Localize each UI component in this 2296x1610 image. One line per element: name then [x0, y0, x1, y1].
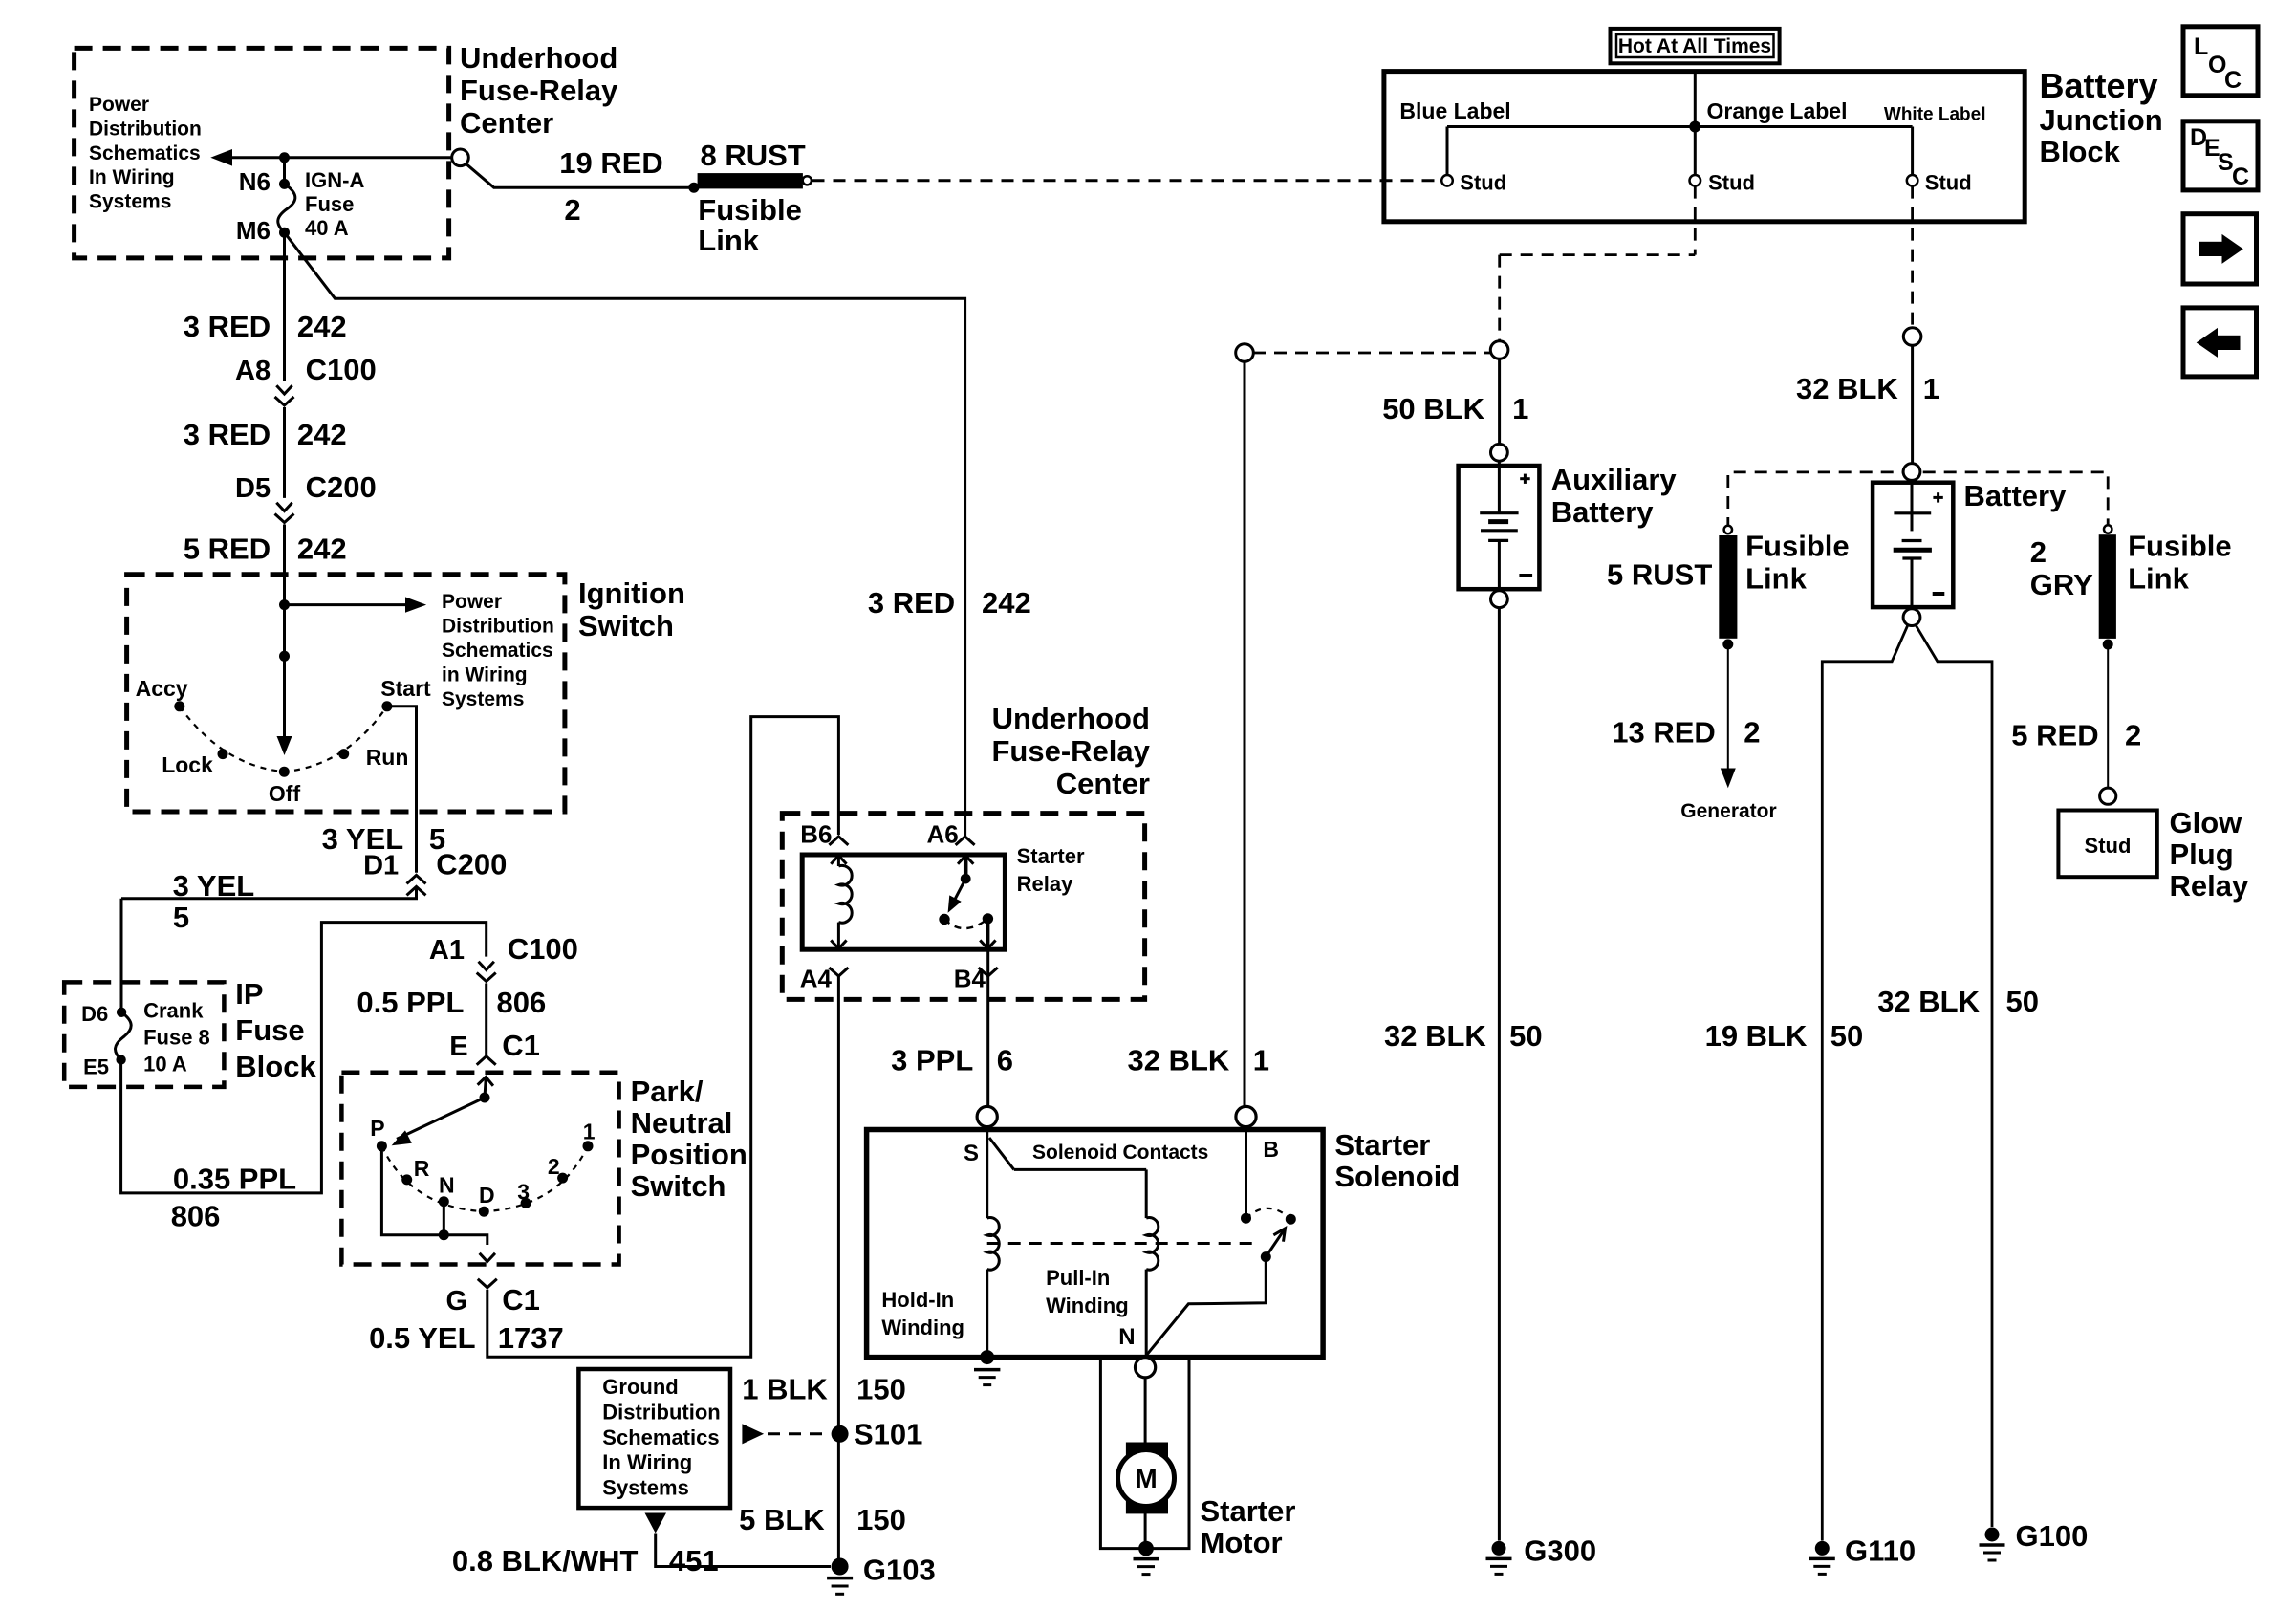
svg-text:Winding: Winding: [881, 1316, 964, 1339]
svg-text:Center: Center: [1056, 767, 1150, 800]
svg-text:Accy: Accy: [136, 676, 188, 701]
svg-text:Power: Power: [89, 94, 149, 116]
svg-text:A1: A1: [429, 935, 465, 966]
svg-text:Run: Run: [366, 745, 409, 770]
svg-text:0.5 PPL: 0.5 PPL: [357, 986, 464, 1019]
svg-text:50: 50: [1830, 1019, 1863, 1053]
svg-text:3 PPL: 3 PPL: [891, 1044, 973, 1077]
svg-text:Underhood: Underhood: [460, 41, 617, 75]
svg-text:B6: B6: [800, 820, 832, 849]
svg-text:Ground: Ground: [602, 1375, 678, 1399]
svg-text:50: 50: [1509, 1019, 1542, 1053]
svg-text:S101: S101: [854, 1418, 922, 1451]
svg-text:L: L: [2194, 33, 2208, 60]
svg-text:Crank: Crank: [143, 999, 204, 1023]
svg-text:Fuse-Relay: Fuse-Relay: [460, 74, 618, 107]
svg-text:Fusible: Fusible: [2128, 530, 2232, 563]
svg-text:3 RED: 3 RED: [868, 586, 955, 620]
svg-text:Lock: Lock: [162, 752, 213, 777]
svg-text:D5: D5: [235, 473, 271, 504]
svg-text:Fuse 8: Fuse 8: [143, 1026, 210, 1050]
svg-text:Glow: Glow: [2170, 806, 2243, 839]
svg-text:2: 2: [1744, 716, 1760, 750]
svg-text:in Wiring: in Wiring: [442, 664, 528, 686]
svg-text:Block: Block: [2040, 135, 2121, 168]
svg-text:5 BLK: 5 BLK: [739, 1503, 825, 1536]
svg-text:2: 2: [2125, 719, 2141, 752]
svg-text:Start: Start: [380, 676, 431, 701]
svg-text:C: C: [2232, 163, 2249, 190]
svg-text:Systems: Systems: [602, 1476, 689, 1500]
svg-text:Park/: Park/: [631, 1075, 704, 1108]
svg-text:Stud: Stud: [1460, 171, 1506, 195]
svg-text:40 A: 40 A: [305, 216, 349, 240]
svg-text:3 RED: 3 RED: [184, 310, 271, 343]
svg-text:0.8 BLK/WHT: 0.8 BLK/WHT: [452, 1544, 639, 1577]
svg-text:242: 242: [982, 586, 1031, 620]
svg-text:242: 242: [297, 533, 347, 566]
svg-text:C1: C1: [502, 1029, 540, 1062]
svg-text:IGN-A: IGN-A: [305, 168, 364, 192]
svg-text:13 RED: 13 RED: [1612, 716, 1716, 750]
svg-text:Switch: Switch: [578, 609, 674, 642]
svg-text:M6: M6: [236, 216, 271, 245]
svg-text:19 RED: 19 RED: [559, 146, 663, 180]
svg-text:C100: C100: [306, 353, 377, 386]
svg-text:Switch: Switch: [631, 1169, 726, 1203]
svg-text:G103: G103: [863, 1554, 936, 1587]
svg-text:Schematics: Schematics: [89, 142, 201, 164]
svg-text:Schematics: Schematics: [442, 640, 553, 662]
svg-text:G100: G100: [2016, 1519, 2089, 1553]
svg-text:Battery: Battery: [1551, 495, 1655, 529]
svg-text:2: 2: [548, 1154, 560, 1179]
svg-text:5 RED: 5 RED: [2011, 719, 2098, 752]
svg-text:Hot At All Times: Hot At All Times: [1618, 35, 1771, 57]
svg-text:P: P: [370, 1116, 384, 1141]
svg-text:Block: Block: [235, 1050, 316, 1083]
svg-text:G: G: [446, 1286, 468, 1316]
svg-text:10 A: 10 A: [143, 1053, 187, 1077]
svg-text:806: 806: [171, 1200, 221, 1233]
svg-text:0.5 YEL: 0.5 YEL: [369, 1321, 475, 1355]
svg-text:Systems: Systems: [89, 191, 171, 213]
svg-text:Stud: Stud: [1925, 171, 1972, 195]
svg-text:White Label: White Label: [1884, 105, 1986, 125]
svg-text:S: S: [964, 1141, 979, 1166]
svg-text:Center: Center: [460, 106, 553, 140]
svg-text:Fuse: Fuse: [235, 1013, 304, 1047]
svg-text:IP: IP: [235, 977, 263, 1011]
svg-text:Stud: Stud: [1708, 171, 1755, 195]
svg-text:1737: 1737: [498, 1321, 564, 1355]
svg-text:In Wiring: In Wiring: [89, 166, 175, 188]
svg-text:C100: C100: [508, 932, 578, 966]
svg-text:32 BLK: 32 BLK: [1127, 1044, 1229, 1077]
svg-text:32 BLK: 32 BLK: [1796, 372, 1898, 405]
svg-text:5: 5: [173, 901, 189, 934]
svg-text:Solenoid Contacts: Solenoid Contacts: [1032, 1142, 1208, 1164]
svg-text:Winding: Winding: [1046, 1294, 1129, 1317]
svg-text:GRY: GRY: [2030, 568, 2093, 601]
svg-text:C200: C200: [306, 470, 377, 504]
svg-text:Off: Off: [269, 781, 301, 806]
svg-text:Starter: Starter: [1334, 1128, 1430, 1162]
svg-text:Generator: Generator: [1680, 800, 1776, 822]
svg-text:Starter: Starter: [1017, 844, 1085, 868]
svg-text:50 BLK: 50 BLK: [1382, 392, 1484, 425]
svg-text:1: 1: [1512, 392, 1528, 425]
svg-text:Power: Power: [442, 591, 502, 613]
svg-text:Link: Link: [2128, 562, 2189, 596]
svg-text:M: M: [1135, 1464, 1157, 1493]
svg-text:G300: G300: [1524, 1534, 1596, 1568]
svg-text:Distribution: Distribution: [602, 1400, 720, 1424]
svg-text:150: 150: [856, 1503, 906, 1536]
svg-text:Link: Link: [698, 224, 759, 257]
svg-text:Stud: Stud: [2085, 834, 2132, 858]
svg-text:Fuse: Fuse: [305, 192, 354, 216]
svg-text:Link: Link: [1745, 562, 1807, 596]
svg-text:Plug: Plug: [2170, 838, 2234, 871]
svg-text:6: 6: [997, 1044, 1013, 1077]
svg-text:3 YEL: 3 YEL: [173, 869, 255, 903]
svg-text:In Wiring: In Wiring: [602, 1450, 692, 1474]
svg-text:Systems: Systems: [442, 688, 524, 710]
svg-text:Neutral: Neutral: [631, 1106, 733, 1140]
svg-text:N: N: [439, 1173, 455, 1198]
svg-text:Blue Label: Blue Label: [1399, 98, 1510, 123]
svg-text:Starter: Starter: [1201, 1494, 1296, 1528]
svg-text:Hold-In: Hold-In: [881, 1288, 954, 1312]
svg-text:Pull-In: Pull-In: [1046, 1266, 1110, 1290]
svg-text:D1: D1: [363, 851, 399, 881]
svg-text:242: 242: [297, 418, 347, 451]
svg-text:D: D: [479, 1183, 495, 1207]
svg-text:Junction: Junction: [2040, 103, 2163, 137]
svg-text:0.35 PPL: 0.35 PPL: [173, 1163, 296, 1196]
svg-text:Orange Label: Orange Label: [1707, 98, 1848, 123]
svg-text:32 BLK: 32 BLK: [1877, 985, 1980, 1018]
svg-text:2: 2: [564, 193, 580, 227]
svg-text:242: 242: [297, 310, 347, 343]
svg-text:8 RUST: 8 RUST: [701, 139, 806, 172]
svg-text:C: C: [2224, 67, 2242, 94]
svg-text:Fusible: Fusible: [698, 193, 802, 227]
svg-text:E5: E5: [83, 1055, 109, 1079]
svg-text:Ignition: Ignition: [578, 577, 685, 610]
svg-text:Motor: Motor: [1201, 1526, 1283, 1559]
svg-text:A6: A6: [926, 820, 958, 849]
svg-text:150: 150: [856, 1373, 906, 1406]
svg-text:Solenoid: Solenoid: [1334, 1160, 1460, 1193]
svg-text:C200: C200: [436, 848, 507, 881]
svg-text:R: R: [414, 1156, 430, 1181]
svg-text:1 BLK: 1 BLK: [742, 1373, 828, 1406]
svg-text:N6: N6: [239, 167, 271, 196]
svg-text:19 BLK: 19 BLK: [1705, 1019, 1808, 1053]
svg-text:Fusible: Fusible: [1745, 530, 1850, 563]
svg-text:5 RED: 5 RED: [184, 533, 271, 566]
svg-text:A4: A4: [800, 965, 833, 993]
svg-text:Underhood: Underhood: [992, 702, 1150, 735]
svg-text:Position: Position: [631, 1138, 747, 1171]
svg-text:D6: D6: [81, 1002, 108, 1026]
svg-text:Battery: Battery: [1964, 479, 2068, 512]
svg-text:1: 1: [1923, 372, 1939, 405]
svg-text:5 RUST: 5 RUST: [1607, 558, 1712, 592]
svg-text:451: 451: [669, 1544, 719, 1577]
svg-text:50: 50: [2006, 985, 2039, 1018]
svg-text:Auxiliary: Auxiliary: [1551, 463, 1678, 496]
svg-text:32 BLK: 32 BLK: [1384, 1019, 1486, 1053]
svg-text:A8: A8: [235, 356, 271, 386]
svg-text:Battery: Battery: [2040, 66, 2158, 105]
svg-text:2: 2: [2030, 535, 2047, 569]
svg-text:G110: G110: [1845, 1534, 1916, 1568]
svg-text:3 RED: 3 RED: [184, 418, 271, 451]
svg-text:Distribution: Distribution: [442, 616, 554, 638]
svg-text:Relay: Relay: [2170, 869, 2249, 903]
svg-text:1: 1: [1253, 1044, 1269, 1077]
svg-text:1: 1: [583, 1120, 596, 1144]
svg-text:Relay: Relay: [1017, 872, 1073, 896]
svg-text:N: N: [1118, 1324, 1135, 1350]
svg-text:806: 806: [497, 986, 547, 1019]
svg-text:E: E: [449, 1032, 467, 1062]
svg-text:Distribution: Distribution: [89, 118, 202, 140]
svg-text:B: B: [1263, 1137, 1279, 1162]
svg-text:Fuse-Relay: Fuse-Relay: [991, 734, 1150, 768]
svg-text:Schematics: Schematics: [602, 1425, 719, 1449]
svg-text:C1: C1: [502, 1283, 540, 1316]
svg-text:3: 3: [517, 1180, 530, 1205]
